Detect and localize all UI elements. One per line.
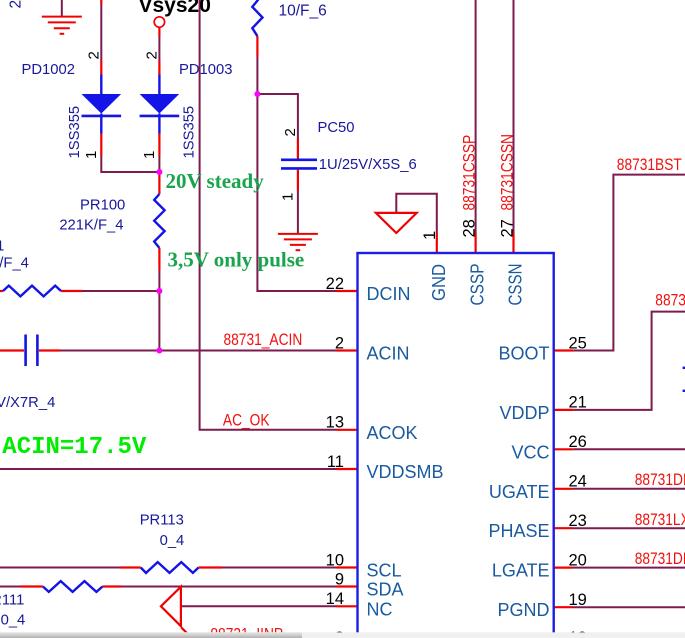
svg-text:PD1002: PD1002 bbox=[22, 62, 75, 78]
pin: CSSN chip pin 27 bbox=[512, 233, 514, 253]
svg-text:26: 26 bbox=[569, 433, 587, 451]
scrollbar track bottom bbox=[0, 632, 685, 638]
pin: LGATE chip pin 20 bbox=[554, 566, 573, 568]
svg-text:88731LX_P: 88731LX_P bbox=[635, 510, 685, 529]
pin: DCIN chip pin 22 bbox=[337, 290, 358, 292]
svg-text:19: 19 bbox=[569, 591, 587, 609]
wire: SDA net segments bbox=[0, 586, 337, 588]
wire: PD1002 pin1 down and right to junction A bbox=[101, 156, 159, 172]
wire: Vsys20 connector to PD1003 pin2 bbox=[158, 37, 160, 61]
svg-text:PGND: PGND bbox=[497, 600, 549, 620]
svg-text:SDA: SDA bbox=[367, 580, 404, 600]
pin: PR111 pin 1 bbox=[103, 585, 122, 587]
wire: left resistor to junction B bbox=[82, 290, 159, 292]
svg-text:1: 1 bbox=[280, 193, 297, 201]
pin: UGATE chip pin 24 bbox=[554, 488, 573, 490]
wire: PHASE net bbox=[573, 527, 685, 529]
junction C bbox=[156, 348, 162, 354]
wire: ground stem top-left bbox=[61, 0, 63, 16]
scrollbar thumb bottom-left bbox=[0, 632, 302, 638]
svg-text:10: 10 bbox=[326, 551, 344, 569]
svg-text:14: 14 bbox=[326, 590, 344, 608]
svg-text:88731_ACIN: 88731_ACIN bbox=[224, 330, 303, 349]
svg-text:1: 1 bbox=[141, 151, 158, 159]
wire: BOOT net to 88731BST bbox=[574, 175, 685, 351]
pin: NC chip pin 14 bbox=[337, 605, 358, 607]
svg-text:ACIN: ACIN bbox=[367, 344, 410, 364]
capacitor left edge horizontal bbox=[26, 335, 38, 367]
resistor PR100 vertical bbox=[154, 194, 164, 248]
wire: LGATE net bbox=[573, 567, 685, 569]
svg-text:9: 9 bbox=[335, 570, 344, 588]
off-page arrow edge at bottom (clipped) bbox=[181, 628, 193, 638]
svg-text:88731DH: 88731DH bbox=[635, 470, 685, 489]
junction B bbox=[156, 288, 162, 294]
svg-text:21: 21 bbox=[569, 394, 587, 412]
svg-text:2: 2 bbox=[335, 334, 344, 352]
pin: GND chip pin 1 bbox=[436, 233, 438, 253]
pin: ACIN chip pin 2 bbox=[337, 349, 358, 351]
svg-text:VDDP: VDDP bbox=[499, 403, 549, 423]
svg-text:PC50: PC50 bbox=[318, 120, 355, 136]
capacitor PC50 bbox=[281, 160, 317, 169]
pin: left resistor pin 1 bbox=[61, 290, 82, 292]
pin: SCL chip pin 10 bbox=[337, 566, 358, 568]
svg-text:2: 2 bbox=[8, 0, 25, 9]
svg-text:25: 25 bbox=[569, 334, 587, 352]
svg-text:ACOK: ACOK bbox=[367, 423, 418, 443]
pin: Vsys20 connector stub bbox=[158, 27, 160, 36]
pin: left resistor stub at edge bbox=[0, 290, 3, 292]
wire: VCC net bbox=[574, 448, 685, 450]
svg-text:PD1003: PD1003 bbox=[179, 62, 232, 78]
svg-text:VDDSMB: VDDSMB bbox=[367, 462, 444, 482]
wire: VDDP net to 88731VDDP bbox=[574, 312, 685, 410]
svg-text:PHASE: PHASE bbox=[488, 521, 549, 541]
svg-text:221K/F_4: 221K/F_4 bbox=[0, 255, 29, 271]
pin: PGND chip pin 19 bbox=[554, 606, 573, 608]
resistor left edge horizontal (PR101) bbox=[3, 286, 61, 297]
wire: long vertical AC_OK net to ACOK pin bbox=[200, 0, 337, 430]
svg-text:UGATE: UGATE bbox=[489, 482, 550, 502]
svg-text:3,5V only pulse: 3,5V only pulse bbox=[168, 248, 305, 272]
wire: PD1002 pin2 net from top bbox=[100, 5, 102, 61]
wire: CSSN net vertical bbox=[513, 0, 515, 233]
wire: 10 ohm resistor down to junction D bbox=[256, 57, 258, 94]
svg-text:28: 28 bbox=[461, 219, 479, 237]
svg-text:22: 22 bbox=[326, 275, 344, 293]
pin: BOOT chip pin 25 bbox=[554, 349, 574, 351]
resistor 10/F_6 vertical top bbox=[252, 0, 262, 36]
svg-text:PR101: PR101 bbox=[0, 239, 4, 255]
svg-text:PR100: PR100 bbox=[80, 197, 125, 213]
pin: PR111 pin 2 bbox=[21, 585, 43, 587]
ground symbol below PC50 bbox=[278, 234, 318, 250]
svg-text:GND: GND bbox=[429, 264, 449, 301]
pin: PD1002 pin 2 bbox=[100, 61, 102, 75]
svg-text:20V steady: 20V steady bbox=[166, 169, 265, 193]
pin: VDDP chip pin 21 bbox=[554, 409, 574, 411]
wire: UGATE net bbox=[573, 488, 685, 490]
pin: VDDSMB chip pin 11 bbox=[337, 468, 358, 470]
pin: CSSP chip pin 28 bbox=[475, 233, 477, 253]
resistor PR111 bbox=[43, 581, 103, 592]
svg-text:13: 13 bbox=[326, 414, 344, 432]
resistor PR113 bbox=[141, 562, 199, 573]
svg-text:1U/50V/X7R_4: 1U/50V/X7R_4 bbox=[0, 395, 55, 411]
wire: PC50 bottom to ground bbox=[297, 191, 299, 234]
svg-text:0_4: 0_4 bbox=[160, 533, 185, 549]
svg-text:1SS355: 1SS355 bbox=[182, 106, 198, 159]
svg-text:LGATE: LGATE bbox=[492, 561, 550, 581]
wire: SCL net segments bbox=[0, 567, 337, 569]
pin: left capacitor pin 2 at edge bbox=[0, 349, 24, 351]
svg-text:20: 20 bbox=[569, 551, 587, 569]
wire: ACIN net horizontal bbox=[60, 350, 337, 352]
svg-text:1: 1 bbox=[421, 231, 439, 240]
wire: power-flag to GND pin 1 bbox=[396, 194, 437, 233]
pin: PR100 pin 1 bbox=[158, 248, 160, 271]
svg-text:2: 2 bbox=[282, 128, 299, 136]
svg-text:2: 2 bbox=[144, 51, 161, 59]
svg-text:CSSP: CSSP bbox=[468, 264, 488, 306]
ground symbol top-left bbox=[42, 17, 82, 34]
svg-text:VCC: VCC bbox=[511, 442, 549, 462]
pin: VCC chip pin 26 bbox=[554, 448, 574, 450]
wire: junction D down then right to DCIN pin bbox=[257, 94, 336, 291]
off-page arrow 88731_IINP on NC pin bbox=[161, 587, 181, 627]
svg-text:ACIN=17.5V: ACIN=17.5V bbox=[2, 434, 147, 461]
pin: SDA chip pin 9 bbox=[337, 585, 358, 587]
diode PD1002 bbox=[82, 75, 122, 134]
svg-text:88731CSSP: 88731CSSP bbox=[460, 135, 479, 211]
pin: left capacitor pin 1 bbox=[39, 349, 60, 351]
svg-text:AC_OK: AC_OK bbox=[223, 410, 270, 429]
svg-text:88731CSSN: 88731CSSN bbox=[497, 134, 516, 211]
svg-text:88731VDDP: 88731VDDP bbox=[655, 291, 685, 310]
svg-text:BOOT: BOOT bbox=[498, 344, 549, 364]
svg-text:CSSN: CSSN bbox=[506, 264, 526, 306]
svg-text:1: 1 bbox=[83, 151, 100, 159]
stray blue marks right edge bbox=[683, 367, 685, 369]
wire: PD1003 pin1 down to junction A bbox=[158, 156, 160, 172]
pin: PD1002 pin 1 bbox=[100, 134, 102, 157]
junction A bbox=[156, 169, 162, 175]
wire: NC net from IINP arrow bbox=[181, 605, 337, 607]
svg-text:0_4: 0_4 bbox=[1, 613, 26, 629]
svg-text:88731DL: 88731DL bbox=[635, 549, 685, 568]
wire: PR100 bottom to junction B bbox=[158, 271, 160, 292]
pin: PHASE chip pin 23 bbox=[554, 527, 573, 529]
svg-text:10/F_6: 10/F_6 bbox=[279, 2, 327, 19]
wire: PGND net bbox=[573, 606, 685, 608]
svg-text:DCIN: DCIN bbox=[367, 284, 411, 304]
pin: PR113 pin 1 bbox=[199, 566, 223, 568]
svg-text:221K/F_4: 221K/F_4 bbox=[59, 217, 123, 233]
svg-text:23: 23 bbox=[569, 512, 587, 530]
pin: PD1003 pin 2 bbox=[158, 61, 160, 75]
diode PD1003 bbox=[140, 75, 180, 134]
svg-text:PR113: PR113 bbox=[140, 513, 184, 529]
pin: PD1003 pin 1 bbox=[158, 134, 160, 157]
svg-text:NC: NC bbox=[367, 599, 393, 619]
svg-text:88731BST: 88731BST bbox=[617, 155, 682, 174]
wire: junction D right to PC50 top bbox=[257, 94, 298, 139]
wire: junction B down to junction C on ACIN net bbox=[158, 291, 160, 351]
pin: PR113 pin 2 bbox=[121, 566, 141, 568]
svg-text:PR111: PR111 bbox=[0, 592, 24, 608]
wire: CSSP net vertical bbox=[475, 0, 477, 233]
pin: PC50 pin 1 bbox=[297, 170, 299, 191]
svg-text:1U/25V/X5S_6: 1U/25V/X5S_6 bbox=[319, 157, 417, 173]
junction D bbox=[254, 91, 260, 97]
svg-text:27: 27 bbox=[498, 219, 516, 237]
pin: 10 ohm resistor pin 1 bbox=[256, 36, 258, 57]
svg-text:SCL: SCL bbox=[367, 561, 402, 581]
pin: net stub at top edge above PD1002 bbox=[100, 0, 102, 5]
IC U1 88731 charger chip body bbox=[358, 253, 554, 638]
wire: VDDSMB net horizontal bbox=[0, 468, 337, 470]
pin: PC50 pin 2 bbox=[297, 139, 299, 159]
connector circle Vsys20 bbox=[154, 17, 164, 27]
svg-text:Vsys20: Vsys20 bbox=[139, 0, 211, 17]
svg-text:24: 24 bbox=[569, 473, 587, 491]
svg-text:11: 11 bbox=[327, 453, 344, 471]
power flag (open triangle) at GND pin bbox=[376, 213, 417, 233]
svg-text:1SS355: 1SS355 bbox=[67, 106, 83, 159]
pin: PR100 pin 2 bbox=[158, 172, 160, 194]
pin: ACOK chip pin 13 bbox=[337, 429, 358, 431]
svg-text:2: 2 bbox=[86, 51, 103, 59]
